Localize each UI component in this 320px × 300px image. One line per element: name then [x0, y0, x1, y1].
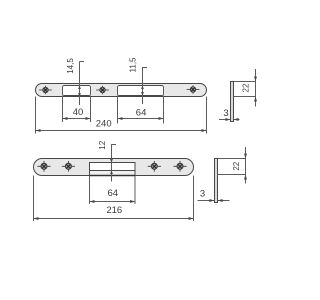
- svg-text:3: 3: [223, 108, 228, 119]
- svg-text:11,5: 11,5: [129, 57, 138, 73]
- svg-text:64: 64: [136, 108, 147, 119]
- svg-text:40: 40: [73, 107, 84, 118]
- svg-text:22: 22: [232, 161, 241, 170]
- svg-text:3: 3: [200, 189, 205, 200]
- svg-text:12: 12: [98, 140, 107, 149]
- svg-text:22: 22: [242, 83, 251, 92]
- svg-text:216: 216: [106, 205, 122, 216]
- svg-text:64: 64: [108, 188, 119, 199]
- svg-text:14,5: 14,5: [66, 58, 75, 74]
- svg-text:240: 240: [96, 119, 112, 130]
